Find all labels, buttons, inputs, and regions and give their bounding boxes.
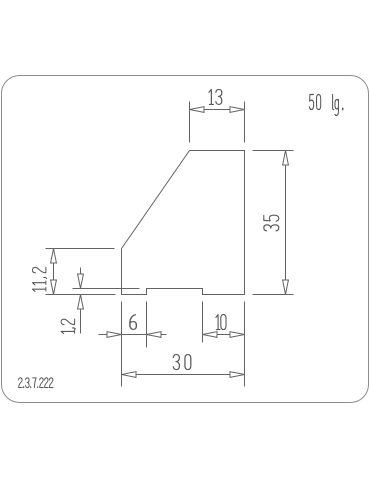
- label 50 lg.: [309, 95, 342, 116]
- dim 30 arrow left: [122, 371, 137, 378]
- dim 13 extension line left: [189, 102, 191, 143]
- dim 30 arrow right: [230, 371, 245, 378]
- dim 30 label: [173, 355, 191, 370]
- dim 1,2 label (rotated): [61, 319, 75, 334]
- dim 11,2 extension line top: [46, 248, 115, 250]
- dim 35 arrow down: [282, 280, 289, 295]
- dim 30 dimension line: [122, 374, 245, 376]
- card border frame: [2, 76, 369, 403]
- dim 1,2 dimension line lower tail: [80, 295, 82, 334]
- dim 6 dimension line with outside tails: [99, 334, 167, 336]
- dim 13 dimension line: [190, 109, 245, 111]
- dim 10 arrow left: [203, 331, 218, 338]
- dim 11,2 dimension line: [53, 249, 55, 295]
- dim 10 dimension line: [203, 334, 245, 336]
- dim 10 arrow right: [230, 331, 245, 338]
- dim 35 dimension line: [285, 151, 287, 295]
- dim 35 label (rotated): [264, 215, 279, 231]
- dim 11,2 arrow down: [50, 280, 57, 295]
- dim 13 label: [209, 89, 222, 104]
- dim 13 arrow right: [230, 106, 245, 113]
- dim 6 label: [130, 315, 137, 330]
- dim 11,2 / 1,2 extension line bottom: [46, 294, 116, 296]
- dim 11,2 label (rotated): [32, 267, 46, 291]
- dim 10 extension line left: [202, 302, 204, 343]
- part number 2.3.7.222: [19, 378, 53, 388]
- dim 6 arrow right (outside left): [107, 331, 122, 338]
- dim 11,2 arrow up: [50, 249, 57, 264]
- dim 1,2 dimension line upper tail: [80, 268, 82, 289]
- dim 35 extension line top: [253, 150, 294, 152]
- dim 6 extension line left: [121, 302, 123, 387]
- dim 1,2 extension line (notch top, to the left): [73, 288, 140, 290]
- dim 10 / 30 extension line right: [244, 302, 246, 387]
- dim 10 label: [216, 315, 226, 330]
- dim 1,2 arrow up (outside below): [77, 295, 84, 310]
- part outline: [122, 151, 245, 295]
- dim 6 arrow left (outside right): [147, 331, 162, 338]
- dim 35 arrow up: [282, 151, 289, 166]
- dim 1,2 arrow down (outside above): [77, 274, 84, 289]
- dim 13 extension line right: [244, 102, 246, 143]
- dim 13 arrow left: [190, 106, 205, 113]
- dim 6 extension line right: [146, 302, 148, 348]
- dim 35 extension line bottom: [253, 294, 294, 296]
